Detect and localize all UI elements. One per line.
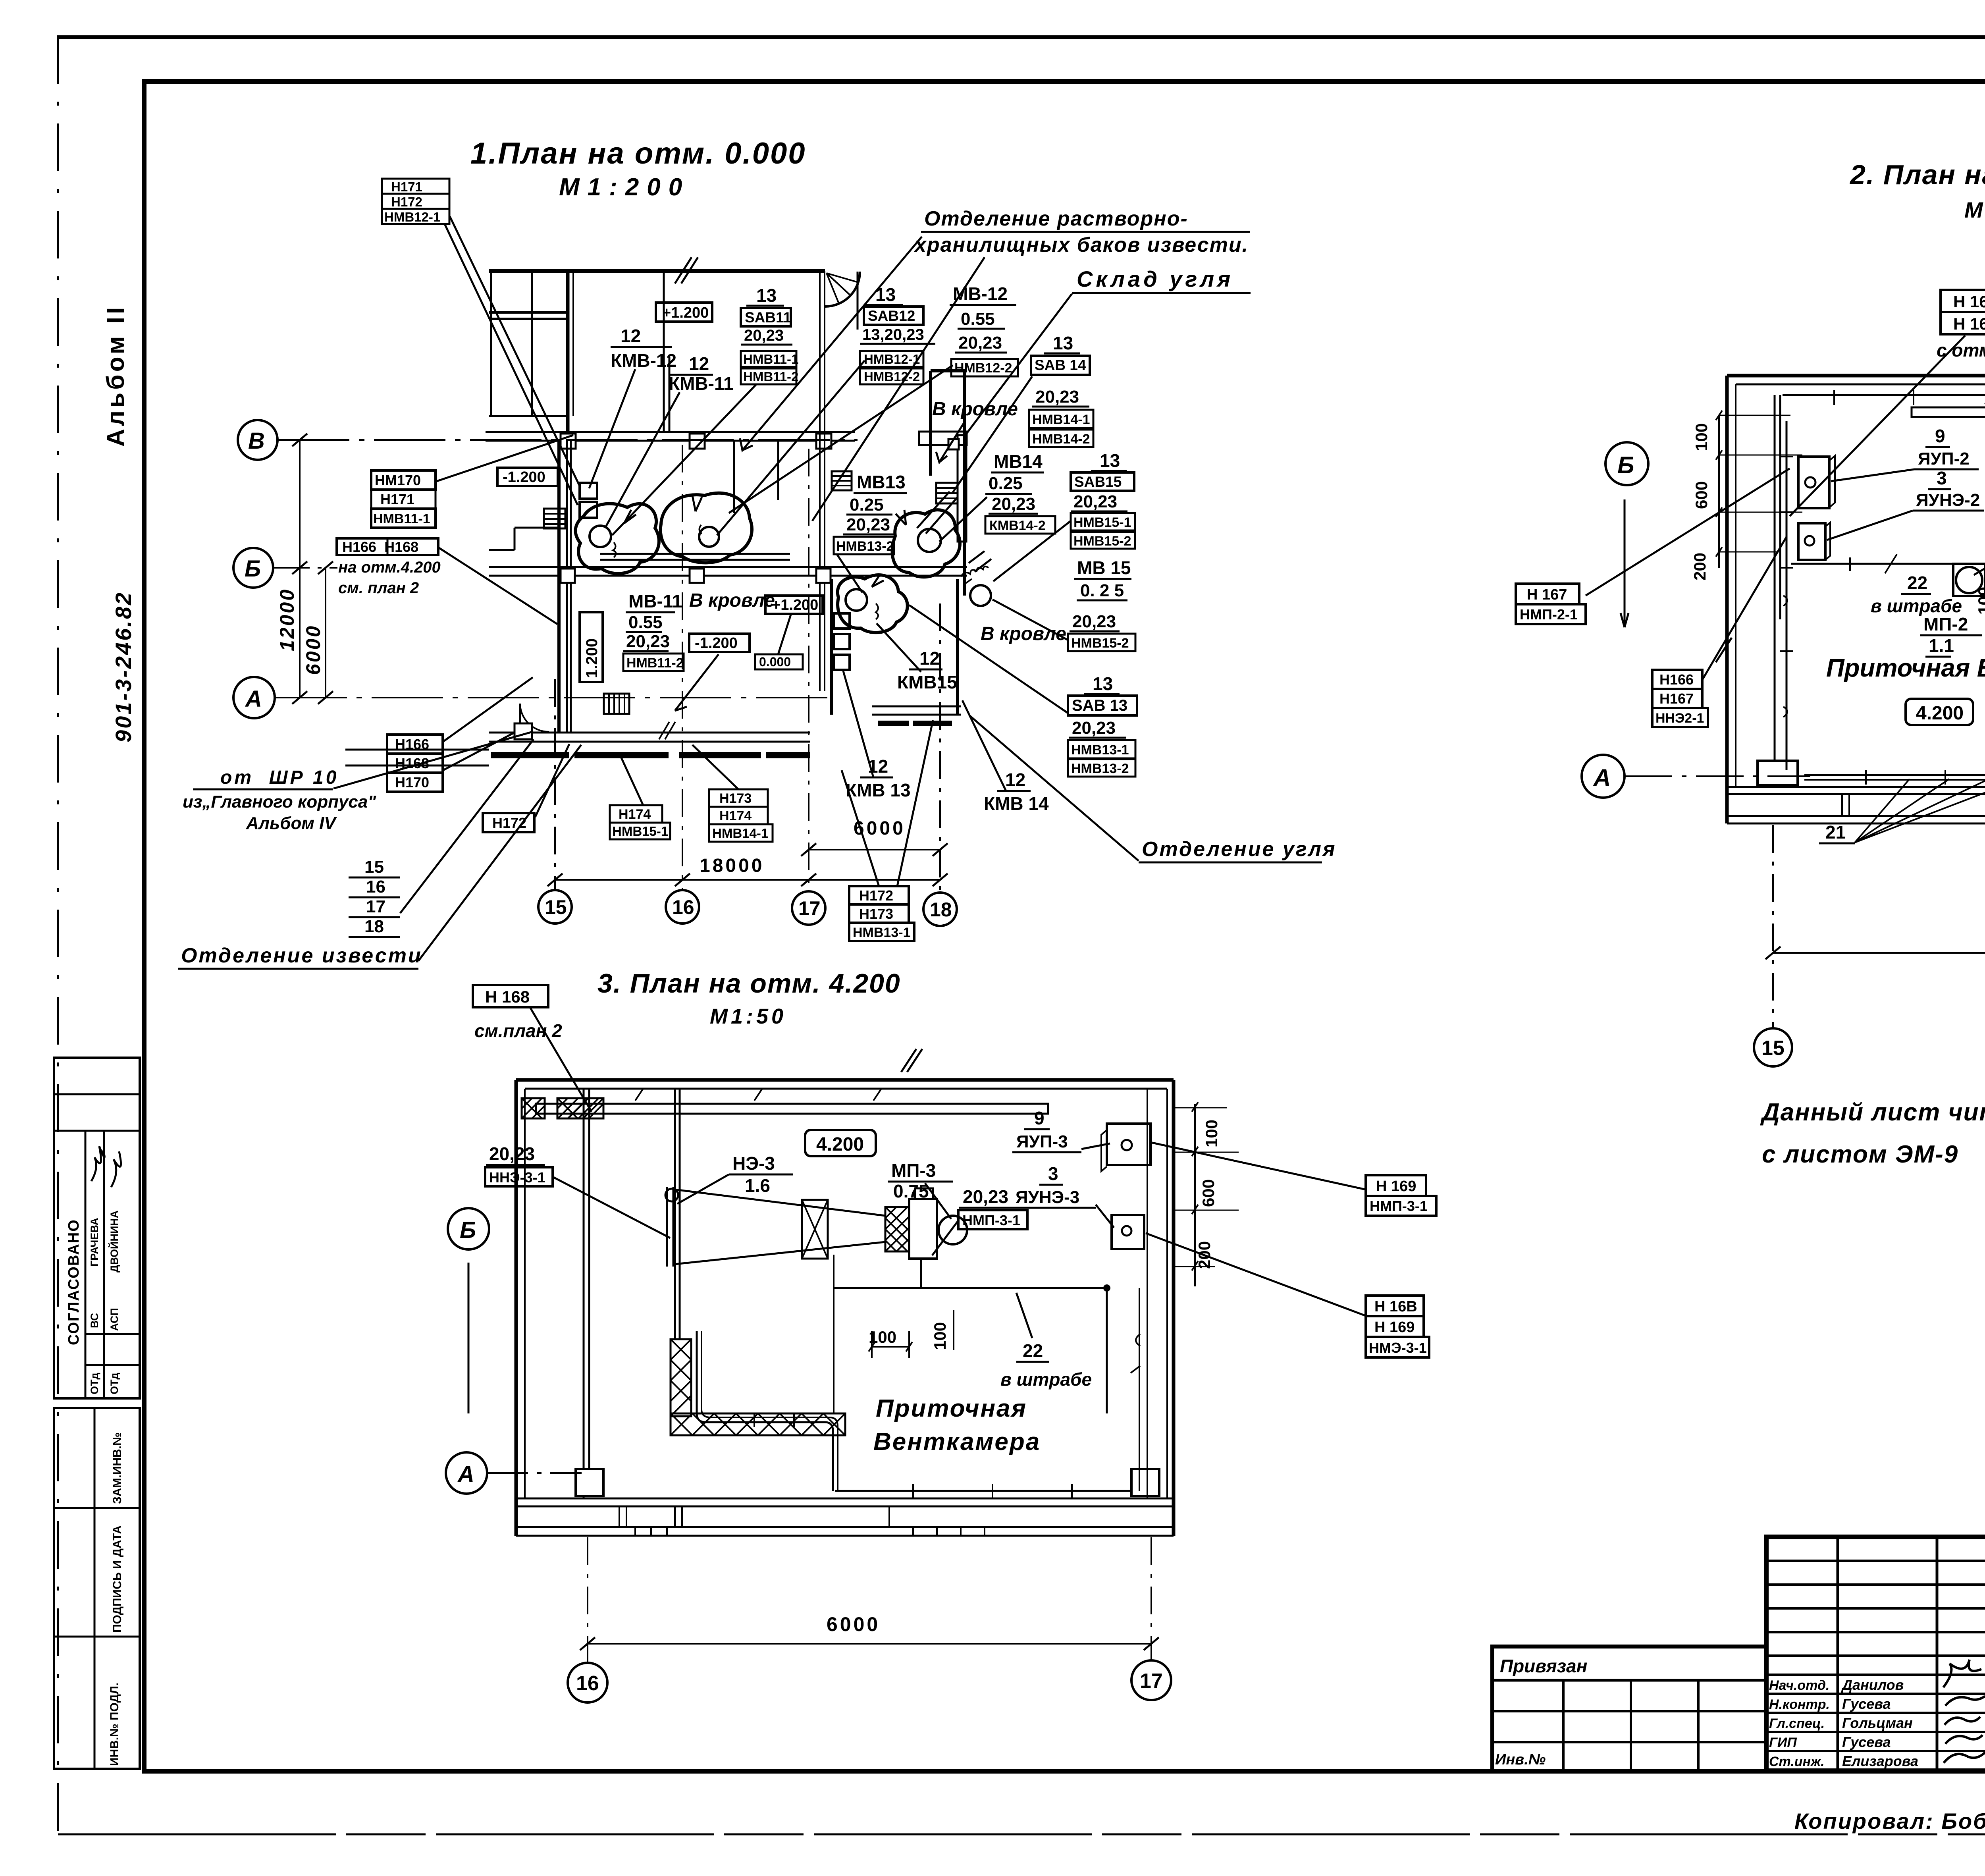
- svg-text:НМП-3-1: НМП-3-1: [962, 1212, 1020, 1228]
- svg-text:SАВ15: SАВ15: [1074, 474, 1122, 490]
- svg-text:-1.200: -1.200: [503, 469, 545, 486]
- plan 3 panel YAUP-3: [1101, 1124, 1151, 1171]
- leader SAB15 to MB15: [993, 521, 1071, 581]
- plan 1 grille 3: [936, 483, 958, 503]
- svg-text:20,23: 20,23: [744, 327, 784, 344]
- svg-text:SАВ 13: SАВ 13: [1072, 697, 1127, 714]
- svg-text:на отм.4.200: на отм.4.200: [338, 559, 441, 576]
- svg-text:Н 167: Н 167: [1527, 586, 1567, 603]
- svg-text:20,23: 20,23: [963, 1186, 1008, 1207]
- label stack MB14: [985, 451, 1055, 534]
- svg-text:16: 16: [366, 877, 385, 897]
- plan 1 foundation bars: [491, 723, 952, 755]
- svg-text:9: 9: [1935, 426, 1945, 446]
- plan 3 mid partition with crosshatch: [671, 1089, 845, 1435]
- svg-text:см. план 2: см. план 2: [338, 579, 419, 597]
- svg-text:0.55: 0.55: [628, 613, 663, 632]
- svg-text:хранилищных баков извести.: хранилищных баков извести.: [913, 233, 1249, 256]
- svg-text:В кровле: В кровле: [981, 623, 1066, 644]
- plan 2 cable to fan: [1791, 554, 1953, 573]
- svg-text:18: 18: [930, 898, 952, 921]
- plan 3 axis circle 17: [1131, 1660, 1171, 1700]
- plan 2 floor cable tray: [1804, 632, 1985, 785]
- label stack MB-11: [623, 591, 684, 671]
- leader KMB-11: [605, 392, 680, 528]
- plan 1 top wall: [489, 257, 825, 283]
- svg-text:КМВ14-2: КМВ14-2: [989, 518, 1046, 533]
- label stack 13 SAB 13: [1068, 673, 1137, 777]
- leader KMB13: [843, 671, 873, 777]
- leader otdelenie uglya: [969, 715, 1139, 861]
- leader H172 box: [535, 744, 569, 817]
- svg-text:МП-2: МП-2: [1923, 614, 1968, 634]
- outer border top line: [57, 35, 1985, 39]
- svg-text:0.25: 0.25: [989, 474, 1023, 493]
- svg-text:МВ-11: МВ-11: [628, 591, 682, 611]
- plan 3 flexible connector: [885, 1207, 909, 1251]
- label box -1.200 mid: [689, 634, 750, 652]
- svg-text:16: 16: [576, 1672, 599, 1695]
- leader H166 H168: [439, 548, 557, 624]
- svg-text:Елизарова: Елизарова: [1842, 1753, 1918, 1769]
- plan 3 top duct: [536, 1089, 1048, 1114]
- svg-text:20,23: 20,23: [1073, 492, 1117, 511]
- svg-text:ДВОЙНИНА: ДВОЙНИНА: [108, 1211, 120, 1273]
- svg-text:Н 16В: Н 16В: [1953, 314, 1985, 333]
- svg-text:17: 17: [1140, 1670, 1163, 1693]
- label box -1.200 left: [497, 468, 558, 486]
- svg-text:Б: Б: [1617, 452, 1634, 478]
- label 12 KMB-12: [611, 326, 676, 371]
- svg-text:17: 17: [798, 897, 821, 920]
- svg-text:ЗАМ.ИНВ.№: ЗАМ.ИНВ.№: [111, 1433, 124, 1504]
- plan 3 left inner partition: [576, 1089, 1159, 1498]
- label 12 KMB-11: [669, 353, 734, 394]
- label stack MB13: [834, 472, 907, 554]
- plan 3 axis circle A: [446, 1452, 582, 1494]
- plan 1 grille 4: [604, 694, 629, 714]
- svg-text:ИНВ.№ ПОДЛ.: ИНВ.№ ПОДЛ.: [108, 1683, 121, 1766]
- plan 2 dim 6000: [1765, 921, 1985, 959]
- label box 0.000: [755, 654, 803, 669]
- svg-text:НМВ11-1: НМВ11-1: [373, 511, 430, 526]
- svg-text:22: 22: [1907, 573, 1927, 593]
- svg-text:18: 18: [364, 917, 384, 936]
- svg-text:ЯУП-3: ЯУП-3: [1016, 1132, 1068, 1151]
- svg-text:20,23: 20,23: [958, 333, 1002, 353]
- plan 3 axis circle 16: [568, 1663, 607, 1702]
- leader SAB12: [717, 361, 865, 535]
- label stack 13 SAB14: [1029, 333, 1093, 447]
- svg-text:15: 15: [364, 857, 384, 877]
- svg-text:Гусева: Гусева: [1842, 1734, 1891, 1750]
- svg-text:Приточная Венткамера: Приточная Венткамера: [1826, 654, 1985, 682]
- svg-text:20,23: 20,23: [1072, 612, 1116, 631]
- plan 3 label 9 YAUP-3: [1012, 1108, 1110, 1152]
- plan 2 label 22 v shtrabe: [1871, 573, 1962, 616]
- svg-text:22: 22: [1023, 1340, 1043, 1361]
- svg-text:МВ 15: МВ 15: [1077, 557, 1131, 578]
- plan 1 entrance ramp lines: [345, 750, 489, 765]
- plan 3 axis 17 line: [1151, 1537, 1152, 1660]
- svg-text:1.200: 1.200: [583, 638, 601, 678]
- plan 2 axis circle A: [1582, 755, 1810, 798]
- svg-text:600: 600: [1692, 481, 1711, 509]
- dim line 6000 left: [302, 561, 333, 704]
- plan 1 bottom wall axis A: [489, 722, 810, 742]
- label stack 13 SAB12: [860, 284, 935, 384]
- svg-text:100: 100: [869, 1328, 896, 1346]
- leader 12 KMB15: [877, 623, 921, 672]
- plan 3 diffuser grille left: [665, 1187, 678, 1267]
- plan 3 diffuser cone: [675, 1190, 885, 1264]
- plan 2 left wall cable: [1780, 421, 1793, 770]
- plan 2 label 20,23 HMP2-1: [1974, 470, 1985, 575]
- label 12 KMB 14: [984, 769, 1049, 814]
- plan 1 duct bars near MB14: [919, 432, 967, 542]
- axis circle 16: [666, 890, 699, 924]
- svg-text:НМВ15-2: НМВ15-2: [1071, 636, 1129, 651]
- leader KMB14: [962, 700, 1006, 791]
- album label Альбом II (rotated): [102, 305, 129, 447]
- svg-text:Копировал: Боброва: Копировал: Боброва: [1794, 1809, 1985, 1834]
- text Otdelenie uglya: [1139, 838, 1336, 862]
- axis circle A: [233, 677, 275, 718]
- text from ShR 10: [183, 767, 376, 833]
- svg-text:КМВ 13: КМВ 13: [846, 780, 911, 800]
- plan 3 dim 6000: [580, 1613, 1159, 1650]
- plan 2 elevation box 4.200: [1906, 699, 1973, 725]
- fan MB14 scroll body: [892, 492, 960, 577]
- svg-text:ГИП: ГИП: [1769, 1735, 1797, 1750]
- cable list 15 16 17 18: [349, 857, 400, 937]
- svg-text:Б: Б: [245, 556, 261, 582]
- svg-text:НМП-3-1: НМП-3-1: [1370, 1198, 1428, 1214]
- plan 1 upper-left wing walls: [489, 271, 573, 441]
- plan 2 left dims 100 600 200: [1690, 411, 1802, 580]
- label B krovle upper: [932, 399, 1018, 462]
- plan 2 axis circle Б: [1605, 442, 1648, 627]
- leader H172 H173 HMB13-1 stack: [842, 720, 933, 886]
- plan 3 right inner line: [1147, 1089, 1148, 1498]
- svg-text:НМВ11-1: НМВ11-1: [743, 352, 798, 366]
- svg-text:3. План на отм. 4.200: 3. План на отм. 4.200: [597, 968, 901, 999]
- svg-text:13: 13: [1093, 673, 1113, 694]
- svg-text:Альбом II: Альбом II: [102, 305, 129, 447]
- plan 2 axis circle 15: [1754, 1028, 1792, 1066]
- outer border bottom line: [58, 1834, 1985, 1836]
- leader SAB13 long: [909, 605, 1068, 713]
- plan 2 inner partition left: [1775, 395, 1780, 770]
- svg-text:А: А: [457, 1461, 474, 1487]
- plan 2 label MP-2 1.1: [1920, 614, 1982, 657]
- outer border left dash-dot line: [57, 36, 59, 1842]
- leader sklad uglya: [965, 294, 1072, 436]
- axis Б horizontal line: [274, 567, 337, 569]
- svg-text:18000: 18000: [700, 855, 764, 876]
- svg-text:13: 13: [1053, 333, 1073, 353]
- svg-text:13: 13: [756, 285, 777, 306]
- plan 2 panel YAUP-2: [1798, 456, 1835, 508]
- svg-text:200: 200: [1690, 553, 1709, 580]
- plan 3 right dims 100 600 200: [1175, 1102, 1239, 1286]
- plan 1 lower-left room wall: [489, 441, 559, 733]
- plan 3 axis circle Б: [448, 1208, 489, 1413]
- svg-text:16: 16: [672, 896, 694, 918]
- svg-text:15: 15: [1761, 1037, 1785, 1060]
- leader H166 H168 H170 stack: [443, 677, 533, 770]
- plan 2 bottom wall and plinth: [1727, 787, 1985, 823]
- svg-text:НЭ-3: НЭ-3: [732, 1153, 775, 1174]
- svg-text:А: А: [1593, 764, 1611, 791]
- svg-text:Б: Б: [460, 1217, 476, 1243]
- leader HMB15-2 to circle: [992, 600, 1068, 640]
- plan 1 junction boxes coal room: [834, 613, 850, 670]
- svg-text:М1:50: М1:50: [1964, 197, 1985, 222]
- svg-text:100: 100: [1692, 423, 1711, 451]
- label 12 KMB15: [897, 648, 957, 692]
- svg-text:Ст.инж.: Ст.инж.: [1769, 1754, 1825, 1769]
- title block signatories: [1769, 1677, 1918, 1769]
- svg-text:в штрабе: в штрабе: [1871, 596, 1962, 616]
- svg-text:0.25: 0.25: [850, 495, 884, 515]
- svg-text:с листом ЭМ-9: с листом ЭМ-9: [1762, 1141, 1958, 1168]
- svg-text:20,23: 20,23: [992, 494, 1035, 514]
- plan 3 elevation box 4.200: [805, 1130, 876, 1156]
- svg-text:Склад угля: Склад угля: [1077, 266, 1233, 291]
- svg-text:ЯУНЭ-2: ЯУНЭ-2: [1916, 490, 1980, 510]
- svg-text:КМВ15: КМВ15: [897, 672, 957, 692]
- plan 2 label H166 H16B: [1790, 290, 1985, 516]
- plan 3 floor cable tray: [697, 1331, 1131, 1498]
- plan 2 supply unit motor: [1953, 564, 1985, 596]
- fan MB15 circle: [961, 567, 991, 606]
- plan 2 dim 100 vertical: [1975, 578, 1985, 615]
- axis circle 15: [538, 890, 572, 924]
- plan 1 partition wall mid: [734, 441, 778, 513]
- svg-text:20,23: 20,23: [1035, 387, 1079, 407]
- label stack H173 H174 HMB14-1: [709, 789, 773, 842]
- plan 3 motor circle: [939, 1216, 967, 1244]
- text Otdelenie izvesti: [178, 944, 422, 969]
- svg-text:15: 15: [545, 896, 567, 918]
- svg-text:НМ170: НМ170: [375, 472, 421, 488]
- svg-text:Н173: Н173: [859, 906, 893, 922]
- svg-text:НМВ13-2: НМВ13-2: [836, 539, 894, 554]
- plan 3 title: [597, 968, 901, 1028]
- fan MB-12 scroll body: [661, 493, 752, 563]
- svg-text:МВ13: МВ13: [857, 472, 906, 492]
- svg-text:Н 16В: Н 16В: [1374, 1298, 1417, 1315]
- axis 16 line: [682, 445, 683, 889]
- dim 18000 plan1: [547, 855, 948, 886]
- plan 3 label H16B H169 HME-3-1: [1146, 1233, 1429, 1357]
- svg-text:Гольцман: Гольцман: [1842, 1715, 1913, 1731]
- plan 2 panel YAUNE-2: [1798, 523, 1830, 560]
- label stack 13 SAB11: [741, 285, 798, 384]
- svg-text:Н166 Н168: Н166 Н168: [342, 539, 418, 555]
- plan 1 interior wall x1675: [664, 271, 669, 432]
- svg-text:SАВ 14: SАВ 14: [1035, 357, 1086, 373]
- svg-text:Гл.спец.: Гл.спец.: [1769, 1716, 1825, 1731]
- svg-text:+1.200: +1.200: [662, 305, 709, 321]
- svg-text:Альбом IV: Альбом IV: [246, 814, 337, 833]
- svg-text:НМВ14-2: НМВ14-2: [1032, 432, 1090, 447]
- svg-text:В: В: [248, 428, 265, 454]
- leader H173 stack: [692, 745, 738, 789]
- svg-text:ОТд: ОТд: [108, 1373, 120, 1394]
- svg-text:SАВ12: SАВ12: [868, 308, 915, 324]
- svg-text:0.75: 0.75: [893, 1181, 929, 1201]
- label stack H171 H172 HMB12-1: [382, 179, 449, 224]
- label 12 KMB 13: [846, 756, 911, 800]
- leader MB14: [939, 497, 987, 542]
- svg-text:НМВ13-1: НМВ13-1: [1071, 742, 1129, 758]
- axis 15 line: [554, 679, 556, 889]
- label box +1.200 mid: [765, 596, 823, 614]
- plan 3 top crosshatch blocks: [522, 1098, 603, 1118]
- svg-text:от ШР 10: от ШР 10: [220, 767, 339, 788]
- svg-text:В кровле: В кровле: [689, 590, 775, 611]
- fan MB-11 scroll body: [576, 504, 659, 574]
- svg-text:Венткамера: Венткамера: [873, 1428, 1041, 1456]
- svg-text:-1.200: -1.200: [695, 635, 738, 652]
- plan 3 label MP-3 0.75: [888, 1160, 953, 1219]
- svg-text:+1.200: +1.200: [772, 597, 818, 613]
- plan 1 door quarter arc top right: [825, 272, 860, 330]
- svg-text:НМВ12-2: НМВ12-2: [954, 361, 1012, 376]
- title block inner grid left: [1766, 1537, 1985, 1771]
- svg-text:Гусева: Гусева: [1842, 1696, 1891, 1712]
- plan 3 panel YAUNE-3: [1112, 1215, 1144, 1249]
- leader rastvorno to plan: [740, 237, 985, 521]
- svg-text:Н166: Н166: [1659, 671, 1694, 688]
- svg-text:9: 9: [1034, 1108, 1045, 1128]
- leader HM170 stack: [437, 435, 573, 481]
- svg-text:1.6: 1.6: [745, 1175, 770, 1196]
- svg-text:АСП: АСП: [108, 1308, 120, 1331]
- svg-text:0. 2 5: 0. 2 5: [1080, 581, 1124, 600]
- svg-text:12: 12: [1005, 769, 1025, 790]
- svg-text:Н 168: Н 168: [485, 987, 530, 1006]
- svg-text:МВ14: МВ14: [994, 451, 1043, 472]
- svg-text:НМВ14-1: НМВ14-1: [1032, 412, 1090, 427]
- svg-text:100: 100: [931, 1322, 949, 1350]
- svg-text:12: 12: [919, 648, 940, 669]
- svg-text:ГРАЧЕВА: ГРАЧЕВА: [89, 1218, 100, 1267]
- svg-text:из„Главного корпуса": из„Главного корпуса": [183, 792, 376, 812]
- leader MB13 to fan: [837, 554, 862, 592]
- svg-text:Н166: Н166: [395, 736, 429, 752]
- svg-text:Привязан: Привязан: [1500, 1656, 1587, 1676]
- plan 1 grille 2: [832, 471, 852, 490]
- plan 3 label 22 v shtrabe: [1000, 1293, 1092, 1390]
- svg-text:SАВ11: SАВ11: [745, 309, 791, 326]
- svg-text:3: 3: [1048, 1163, 1058, 1184]
- svg-text:20,23: 20,23: [626, 632, 670, 651]
- svg-text:НМВ15-1: НМВ15-1: [1073, 515, 1131, 530]
- plan 3 label H168 see plan 2: [473, 985, 592, 1112]
- label box +1.200: [656, 303, 712, 322]
- axis circle B: [238, 420, 278, 460]
- plan 2 title: [1849, 159, 1985, 222]
- title block signatures: [1943, 1660, 1985, 1763]
- dim line 12000: [276, 434, 307, 704]
- label stack HM170: [371, 470, 436, 528]
- svg-text:Н167: Н167: [1659, 690, 1694, 707]
- plan 2 outer walls: [1716, 345, 1985, 823]
- svg-text:Н 169: Н 169: [1376, 1178, 1416, 1195]
- plan 1 coal storage walls: [931, 371, 965, 596]
- svg-text:НМВ13-2: НМВ13-2: [1071, 761, 1129, 776]
- svg-text:100: 100: [1975, 587, 1985, 615]
- leader SAB11: [612, 384, 756, 535]
- svg-text:Приточная: Приточная: [876, 1395, 1027, 1422]
- plan 3 dim 100 vertical: [931, 1310, 954, 1350]
- svg-text:Данилов: Данилов: [1841, 1677, 1904, 1693]
- svg-text:ОТд: ОТд: [89, 1373, 100, 1394]
- approval stamp table СОГЛАСОВАНО: [54, 1058, 140, 1398]
- svg-text:Н170: Н170: [395, 774, 429, 791]
- plan 1 cable risers: [567, 271, 825, 733]
- svg-text:100: 100: [1202, 1120, 1221, 1147]
- plan 2 room name text: [1826, 654, 1985, 682]
- svg-text:13,20,23: 13,20,23: [862, 326, 924, 343]
- plan 3 label H169 HMP-3-1 right: [1152, 1143, 1436, 1216]
- svg-text:3: 3: [1937, 468, 1947, 488]
- svg-text:НМВ12-2: НМВ12-2: [864, 369, 920, 384]
- label stack MB-12: [950, 283, 1018, 376]
- axis B horizontal line: [278, 439, 858, 441]
- svg-text:2. План на отм: 4.200: 2. План на отм: 4.200: [1849, 159, 1985, 190]
- inventory stamp table (ЗАМ.ИНВ / ПОДПИСЬ / ИНВ №): [54, 1408, 140, 1769]
- attachment block Привязан: [1492, 1647, 1766, 1771]
- plan 3 cables: [834, 1255, 1140, 1491]
- plan 1 entrance door arcs: [515, 704, 549, 739]
- svg-text:Инв.№: Инв.№: [1495, 1751, 1546, 1768]
- svg-text:Н172: Н172: [859, 887, 893, 904]
- svg-text:17: 17: [366, 897, 385, 916]
- leader -1.200 mid arrow: [675, 654, 719, 711]
- plan 1 axis B wall: [486, 432, 855, 449]
- leader H174: [620, 755, 643, 805]
- label B krovle mid: [689, 590, 775, 611]
- svg-text:12000: 12000: [276, 588, 298, 651]
- label stack H172 H173 HMB13-1: [849, 886, 914, 941]
- svg-text:12: 12: [621, 326, 641, 346]
- svg-text:Н171: Н171: [391, 179, 422, 194]
- project code 901-3-246.82 (rotated, handwritten): [111, 591, 136, 742]
- svg-text:НМВ15-2: НМВ15-2: [1073, 534, 1131, 549]
- svg-text:НМВ13-1: НМВ13-1: [853, 925, 910, 940]
- plan 3 axis 16 line: [587, 1537, 588, 1662]
- label stack H174 HMB15-1: [610, 805, 670, 839]
- svg-text:20,23: 20,23: [1072, 718, 1116, 738]
- svg-text:МП-3: МП-3: [891, 1160, 936, 1181]
- label stack MB15: [1068, 557, 1135, 651]
- svg-text:НМЭ-3-1: НМЭ-3-1: [1369, 1340, 1427, 1356]
- plan 2 label 21 with leaders: [1819, 779, 1985, 843]
- axis circle 18: [923, 893, 957, 926]
- svg-text:20,23: 20,23: [846, 515, 890, 534]
- plan 3 outer walls: [516, 1049, 1174, 1536]
- svg-text:СОГЛАСОВАНО: СОГЛАСОВАНО: [66, 1219, 82, 1345]
- plan 3 bottom wall and plinth: [516, 1498, 1174, 1536]
- svg-text:НМВ14-1: НМВ14-1: [712, 826, 768, 841]
- leader KMB-12: [589, 369, 635, 488]
- svg-text:ВС: ВС: [89, 1313, 100, 1328]
- svg-text:КМВ 14: КМВ 14: [984, 793, 1049, 814]
